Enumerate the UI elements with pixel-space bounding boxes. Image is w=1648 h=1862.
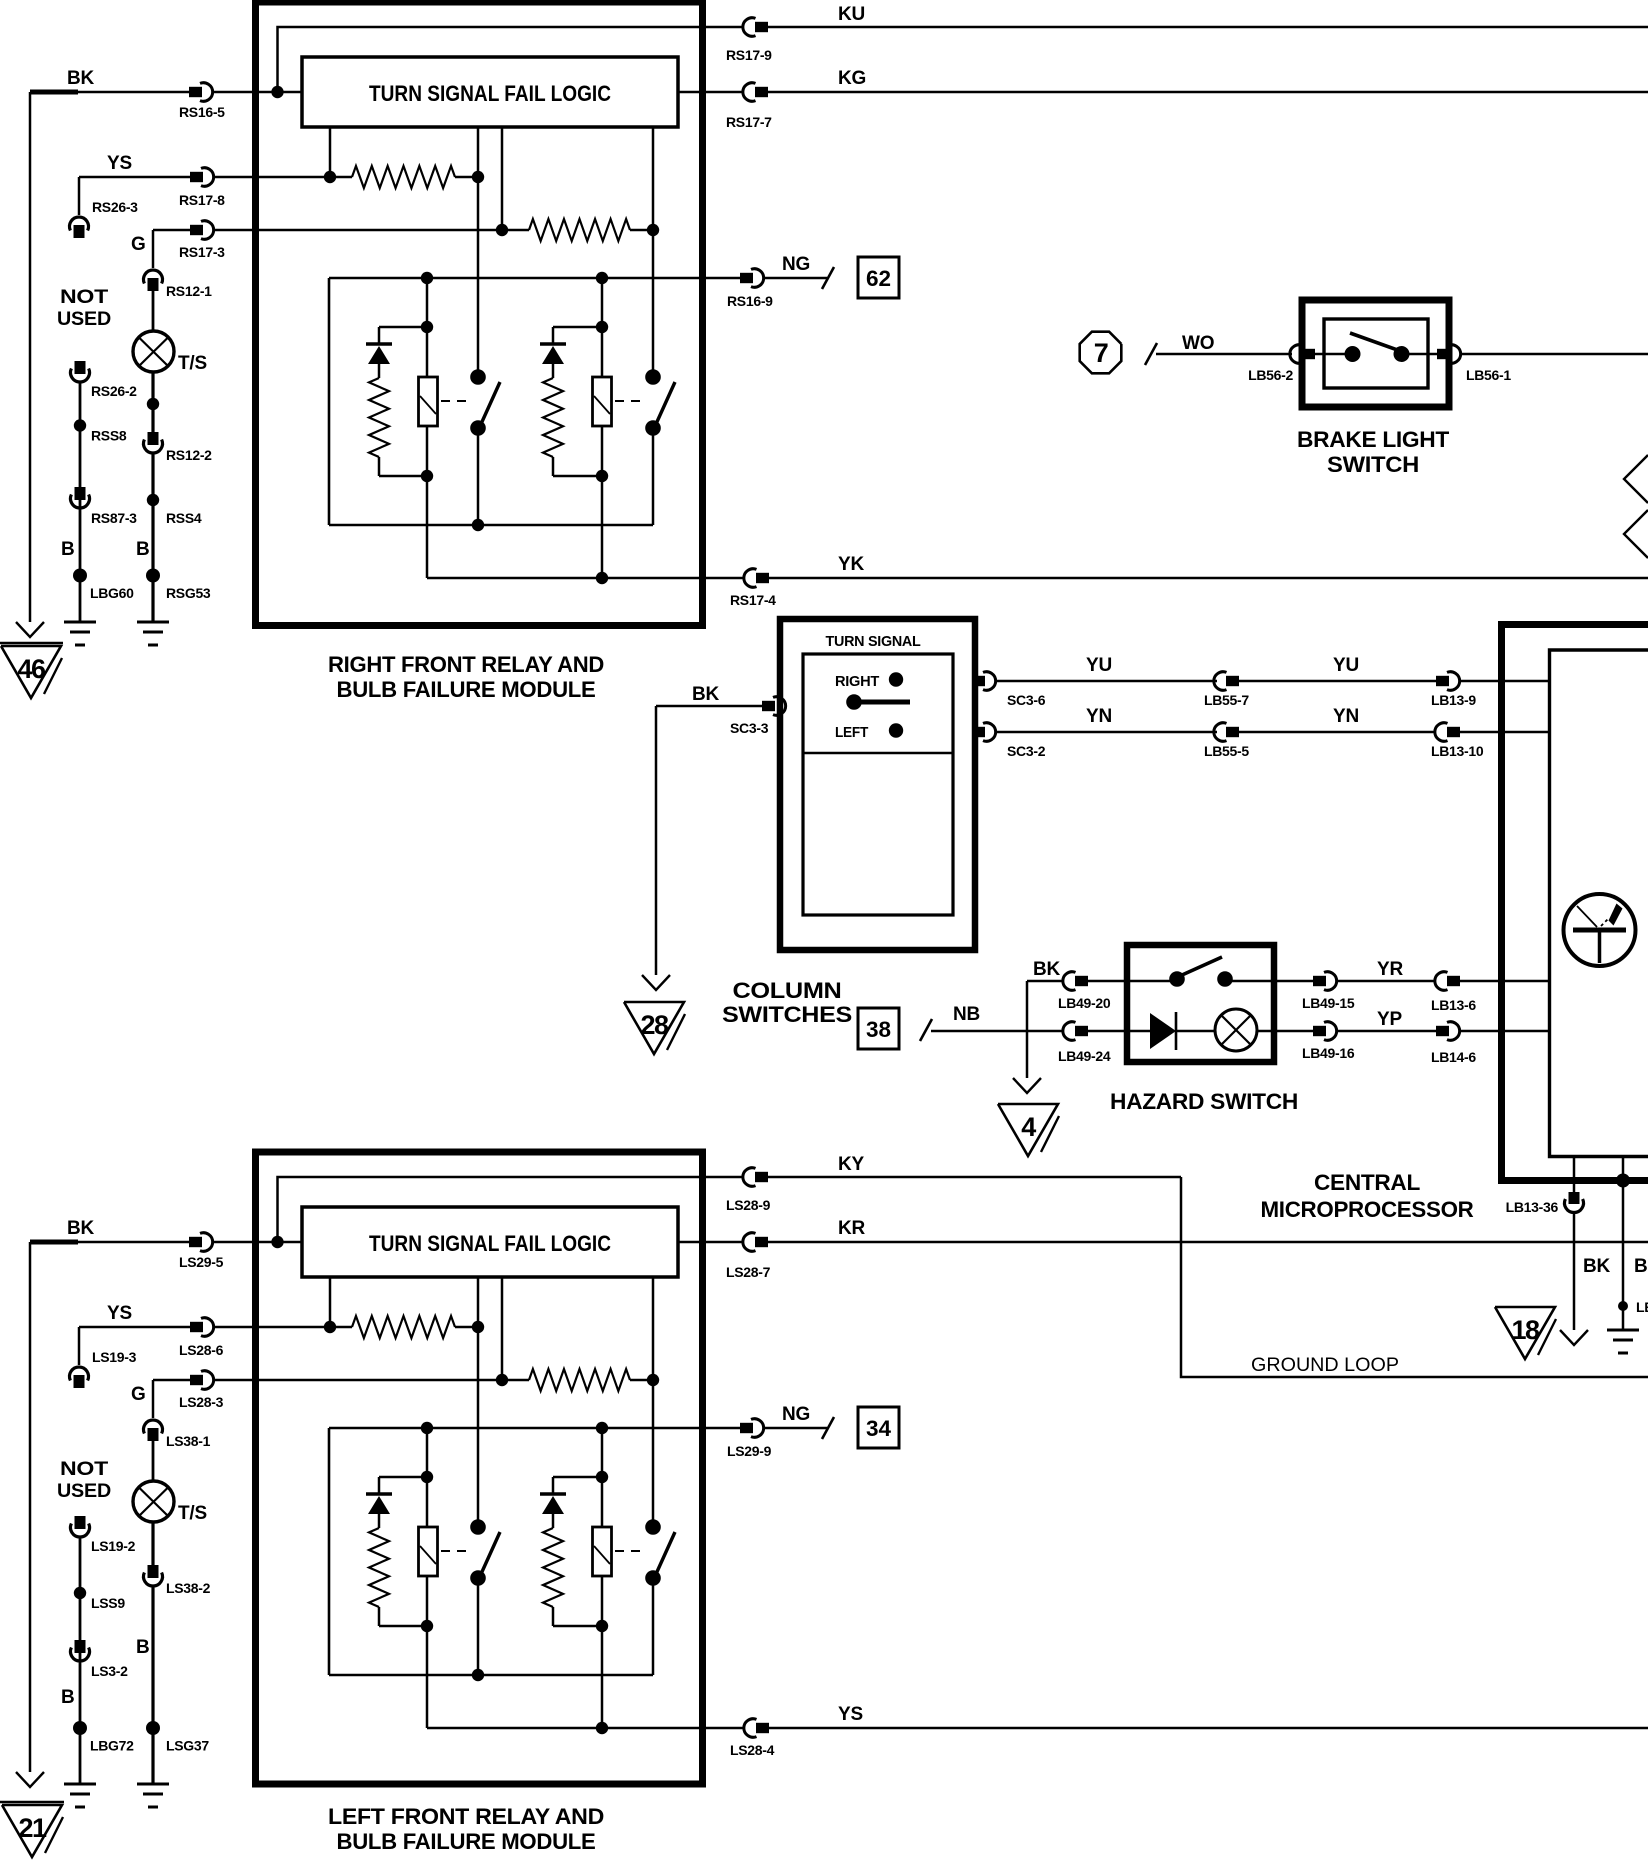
relay compartment box (328, 278, 331, 525)
wire G into module (214, 1379, 503, 1382)
svg-text:NOT: NOT (60, 1459, 109, 1480)
connector RS12-1 (144, 270, 163, 284)
vertical from logic block through resistor 2 to switch 2 (652, 1277, 655, 1527)
svg-text:RS87-3: RS87-3 (91, 510, 137, 526)
wire into hazard switch (1087, 980, 1172, 983)
wire microprocessor ground lead (1573, 1157, 1576, 1193)
module box: LEFT FRONT RELAY AND BULB FAILURE MODULE (256, 1152, 703, 1784)
svg-text:B: B (61, 539, 75, 560)
wire BK to column switch (656, 705, 762, 708)
connector SC3-3 (762, 701, 775, 711)
wire YU into microprocessor (1460, 680, 1550, 683)
svg-text:LS28-6: LS28-6 (179, 1342, 224, 1358)
connector LB49-15 (1313, 976, 1326, 986)
svg-text:LB13-36: LB13-36 (1506, 1199, 1559, 1215)
svg-text:LS19-2: LS19-2 (91, 1538, 136, 1554)
svg-text:7: 7 (1094, 338, 1108, 368)
wire loop to LS28-9 (278, 1177, 706, 1242)
svg-text:LB13-9: LB13-9 (1431, 692, 1476, 708)
relay contact switch 2 (645, 1519, 661, 1535)
svg-text:LB49-24: LB49-24 (1058, 1048, 1111, 1064)
svg-text:HAZARD SWITCH: HAZARD SWITCH (1110, 1089, 1298, 1114)
connector LB49-16 (1313, 1026, 1326, 1036)
ground ref triangle 46 (0, 642, 63, 644)
svg-text:LB49-20: LB49-20 (1058, 995, 1111, 1011)
connector LS28-9 (743, 1168, 756, 1187)
svg-text:YU: YU (1086, 655, 1112, 676)
svg-text:LSS9: LSS9 (91, 1595, 125, 1611)
svg-text:18: 18 (1511, 1315, 1540, 1345)
wire KY output (705, 1176, 744, 1179)
wire diode/resistor top link 2 (553, 326, 602, 329)
connector RS17-8 (190, 172, 203, 182)
svg-text:G: G (131, 1384, 146, 1405)
diode (relay 1 suppression) (366, 1492, 392, 1495)
junction node on YK rail (596, 572, 608, 584)
hazard switch contacts and lever (1169, 971, 1185, 987)
vertical from logic block to resistor 2 (501, 1277, 504, 1380)
wire BK feed (30, 91, 190, 94)
resistor (relay 2 coil shunt) (543, 378, 563, 457)
clipped label fragment (613, 0, 627, 4)
wire diode/resistor top link 2 (553, 1476, 602, 1479)
connector LS29-5 (189, 1237, 202, 1247)
svg-text:YS: YS (107, 1303, 132, 1324)
ground arrow microprocessor (1560, 1330, 1588, 1345)
wire lamp to LB49-16 (1257, 1030, 1313, 1033)
wire KG from logic block (678, 91, 744, 94)
svg-text:NOT: NOT (60, 287, 109, 308)
connector RS17-9 (743, 18, 756, 36)
svg-text:B: B (136, 1637, 150, 1658)
wire diode/resistor top link 1 (379, 326, 427, 329)
vertical from logic block through resistor 1 to switch 1 (477, 127, 480, 377)
lamp T/S (turn signal bulb) (133, 331, 174, 372)
junction node resistor 1 left (324, 171, 336, 183)
diode (hazard illumination) (1150, 1013, 1176, 1049)
diode (relay 2 suppression) (540, 1492, 566, 1495)
wire YK to page edge (768, 577, 1648, 580)
svg-text:BK: BK (1583, 1256, 1611, 1277)
connector LB13-10 (1435, 723, 1448, 741)
svg-text:NG: NG (782, 254, 810, 275)
svg-text:KU: KU (838, 4, 865, 25)
connector RS16-5 (189, 87, 202, 97)
svg-text:SC3-3: SC3-3 (730, 720, 769, 736)
relay coil 1 (426, 278, 429, 377)
junction node LBG60 (73, 569, 87, 583)
junction node LBG72 (73, 1721, 87, 1735)
svg-text:LB55-7: LB55-7 (1204, 692, 1249, 708)
connector LS38-1 (144, 1420, 163, 1434)
svg-text:RS17-4: RS17-4 (730, 592, 776, 608)
svg-text:SWITCHES: SWITCHES (722, 1002, 852, 1027)
wire YS (79, 176, 190, 179)
svg-text:RIGHT: RIGHT (835, 673, 879, 690)
hazard switch box (1127, 945, 1274, 1062)
ground (not-used chain) (64, 621, 96, 624)
lamp (hazard switch illumination) (1215, 1009, 1257, 1051)
vertical from logic block to resistor 2 (501, 127, 504, 230)
svg-text:LB: LB (1636, 1299, 1648, 1315)
connector SC3-6 (972, 676, 985, 686)
wire diode to lamp (1176, 1030, 1215, 1033)
wire YP (1337, 1030, 1437, 1033)
connector SC3-2 (972, 727, 985, 737)
connector LS19-2 (not used chain top) (75, 1516, 86, 1529)
svg-text:NB: NB (953, 1004, 980, 1025)
central microprocessor outer box (1502, 625, 1648, 1181)
svg-text:MICROPROCESSOR: MICROPROCESSOR (1261, 1197, 1474, 1222)
connector LB13-6 (1435, 972, 1448, 990)
svg-text:G: G (131, 234, 146, 255)
svg-text:CENTRAL: CENTRAL (1314, 1170, 1420, 1195)
junction node LSG37 (146, 1721, 160, 1735)
wire diode/resistor bottom link 1 (379, 475, 427, 478)
code box 34 (858, 1407, 899, 1448)
junction node splice (1618, 1301, 1628, 1311)
ground arrow hazard BK (1013, 1078, 1041, 1093)
wire diode/resistor bottom link 2 (553, 475, 602, 478)
dashed actuator link 1 (441, 400, 470, 402)
dashed actuator link 2 (615, 1550, 644, 1552)
lamp T/S (turn signal bulb) (133, 1481, 174, 1522)
svg-text:38: 38 (866, 1017, 891, 1042)
svg-text:LB56-1: LB56-1 (1466, 367, 1511, 383)
junction node on BK wire (271, 1236, 283, 1248)
connector LS28-7 (743, 1233, 756, 1252)
wire YN segment 2 (1238, 731, 1436, 734)
connector LS38-2 (148, 1565, 159, 1578)
connector LS28-4 (744, 1719, 757, 1737)
wire NG to code slash (764, 277, 828, 280)
svg-text:B: B (136, 539, 150, 560)
junction node below lamp (147, 398, 159, 410)
wire G (153, 229, 190, 232)
wire diode/resistor bottom link 2 (553, 1625, 602, 1628)
vertical from logic block through resistor 2 to switch 2 (652, 127, 655, 377)
svg-text:TURN SIGNAL FAIL LOGIC: TURN SIGNAL FAIL LOGIC (369, 1231, 611, 1256)
svg-text:LS28-4: LS28-4 (730, 1742, 775, 1758)
connector LB56-2 (1290, 345, 1303, 364)
wire BK microprocessor ground (1573, 1214, 1576, 1330)
wire YR into microprocessor (1460, 980, 1550, 983)
svg-text:RS16-9: RS16-9 (727, 293, 773, 309)
diode (relay 1 suppression) (366, 342, 392, 345)
wire YP into microprocessor (1460, 1030, 1550, 1033)
svg-text:BK: BK (67, 1218, 95, 1239)
connector RS87-3 (75, 487, 86, 500)
transistor (microprocessor driver) (1564, 894, 1636, 966)
svg-text:LS28-3: LS28-3 (179, 1394, 224, 1410)
svg-text:LB55-5: LB55-5 (1204, 743, 1249, 759)
svg-text:LS38-2: LS38-2 (166, 1580, 211, 1596)
junction node resistor 1 right (472, 171, 484, 183)
svg-text:LB49-15: LB49-15 (1302, 995, 1355, 1011)
svg-text:LSG37: LSG37 (166, 1738, 209, 1754)
svg-text:LS28-7: LS28-7 (726, 1264, 771, 1280)
label WO with code slash (1145, 343, 1157, 365)
svg-text:B: B (61, 1687, 75, 1708)
svg-text:RS17-9: RS17-9 (726, 47, 772, 63)
svg-text:RS16-5: RS16-5 (179, 104, 225, 120)
junction node resistor 2 left (496, 1374, 508, 1386)
svg-text:BK: BK (1634, 1256, 1648, 1277)
connector LB55-7 (1214, 672, 1227, 691)
page-continuation chevron 2 (1624, 510, 1648, 558)
vertical from logic block to resistor 1 (329, 1277, 332, 1327)
ground (lamp return) (137, 1783, 169, 1786)
svg-text:COLUMN: COLUMN (733, 978, 842, 1003)
turn signal switch lever (846, 694, 862, 710)
wire not-used chain (79, 382, 82, 622)
svg-text:YN: YN (1333, 706, 1359, 727)
connector LB56-1 (1437, 349, 1450, 359)
connector RS26-3 (not used) (69, 217, 88, 231)
svg-text:RS17-3: RS17-3 (179, 244, 225, 260)
brake light switch box (1302, 300, 1449, 407)
ground (lamp return) (137, 621, 169, 624)
svg-text:NG: NG (782, 1404, 810, 1425)
wire YR (1337, 980, 1437, 983)
junction node on YS rail (596, 1722, 608, 1734)
svg-text:62: 62 (866, 266, 891, 291)
wire out of brake switch (1409, 353, 1437, 356)
svg-text:4: 4 (1021, 1112, 1036, 1142)
wire NG to code slash (764, 1427, 828, 1430)
svg-text:34: 34 (866, 1416, 892, 1441)
wire YU segment 1 (996, 680, 1218, 683)
wire KG to page edge (767, 91, 1648, 94)
junction node resistor 2 right (647, 224, 659, 236)
svg-text:LS19-3: LS19-3 (92, 1349, 137, 1365)
svg-text:LB13-10: LB13-10 (1431, 743, 1484, 759)
svg-text:SWITCH: SWITCH (1327, 452, 1419, 477)
resistor (bulb-failure sense 1) (352, 166, 455, 188)
junction node resistor 2 left (496, 224, 508, 236)
wire NB into hazard switch (1087, 1030, 1150, 1033)
wire BK second ground (1622, 1181, 1625, 1331)
svg-text:RS12-2: RS12-2 (166, 447, 212, 463)
junction node coil 2 top (596, 1422, 608, 1434)
dashed actuator link 1 (441, 1550, 470, 1552)
wire diode/resistor bottom link 1 (379, 1625, 427, 1628)
svg-text:RSS8: RSS8 (91, 428, 127, 444)
wire YS collector rail (427, 1727, 745, 1730)
svg-text:LS28-9: LS28-9 (726, 1197, 771, 1213)
wire lamp return B (151, 453, 154, 622)
wire KU output (705, 26, 744, 29)
resistor (bulb-failure sense 2) (529, 219, 630, 241)
svg-text:TURN SIGNAL FAIL LOGIC: TURN SIGNAL FAIL LOGIC (369, 81, 611, 106)
svg-text:LB14-6: LB14-6 (1431, 1049, 1476, 1065)
wire lamp return B (151, 1586, 154, 1784)
wire BK feed (30, 1241, 190, 1244)
junction node RSG53 (146, 569, 160, 583)
ground ref triangle 4 (998, 1104, 1058, 1156)
svg-text:RS12-1: RS12-1 (166, 283, 212, 299)
junction node on box edge (1616, 1174, 1630, 1188)
relay contact switch 2 (645, 369, 661, 385)
wire YK collector rail (427, 577, 745, 580)
page-continuation chevron 1 (1624, 455, 1648, 503)
wire YS to page edge (768, 1727, 1648, 1730)
svg-text:USED: USED (57, 309, 111, 330)
svg-text:RS17-7: RS17-7 (726, 114, 772, 130)
wire YS into module (214, 1326, 331, 1329)
wire BK into module (213, 91, 303, 94)
svg-text:T/S: T/S (178, 1503, 207, 1524)
svg-text:LBG72: LBG72 (90, 1738, 134, 1754)
wire YS (79, 1326, 190, 1329)
connector LS28-6 (190, 1322, 203, 1332)
wire YS into module (214, 176, 331, 179)
wire loop to RS17-9 (278, 27, 706, 92)
junction node resistor 1 right (472, 1321, 484, 1333)
column switches box (780, 619, 975, 950)
svg-text:GROUND LOOP: GROUND LOOP (1251, 1355, 1399, 1376)
relay coil 2 (601, 1428, 604, 1527)
svg-text:YP: YP (1377, 1009, 1402, 1030)
relay contact switch 1 (470, 1519, 486, 1535)
svg-text:BK: BK (692, 684, 720, 705)
wire YN into microprocessor (1460, 731, 1550, 734)
resistor (relay 1 coil shunt) (369, 1528, 389, 1607)
svg-text:SC3-2: SC3-2 (1007, 743, 1046, 759)
relay compartment box (328, 1428, 331, 1675)
wire second ground lead (1622, 1157, 1625, 1181)
vertical from logic block to resistor 1 (329, 127, 332, 177)
module box: RIGHT FRONT RELAY AND BULB FAILURE MODULE (256, 2, 703, 626)
wire brake output to page edge (1461, 353, 1648, 356)
resistor (relay 2 coil shunt) (543, 1528, 563, 1607)
svg-text:BULB FAILURE MODULE: BULB FAILURE MODULE (337, 677, 596, 702)
svg-text:28: 28 (640, 1010, 669, 1040)
svg-text:YS: YS (107, 153, 132, 174)
wire hazard switch out (1232, 980, 1313, 983)
junction node resistor 1 left (324, 1321, 336, 1333)
svg-text:KY: KY (838, 1154, 865, 1175)
svg-text:BRAKE LIGHT: BRAKE LIGHT (1297, 427, 1450, 452)
svg-text:LS3-2: LS3-2 (91, 1663, 128, 1679)
svg-text:RSG53: RSG53 (166, 585, 211, 601)
svg-text:SC3-6: SC3-6 (1007, 692, 1046, 708)
svg-text:WO: WO (1182, 333, 1214, 354)
connector RS17-3 (190, 225, 203, 235)
relay coil 2 (601, 278, 604, 377)
wire diode/resistor top link 1 (379, 1476, 427, 1479)
earth ground (microprocessor) (1607, 1329, 1639, 1332)
wire KR to page edge (767, 1241, 1648, 1244)
connector LB49-24 (1063, 1022, 1076, 1041)
logic block TURN SIGNAL FAIL LOGIC (302, 1207, 678, 1277)
ground arrow BK (16, 622, 44, 637)
svg-text:RSS4: RSS4 (166, 510, 202, 526)
connector LB13-36 (1569, 1192, 1580, 1204)
svg-text:BULB FAILURE MODULE: BULB FAILURE MODULE (337, 1829, 596, 1854)
code octagon 7 (1080, 332, 1122, 374)
connector LS29-9 (740, 1423, 753, 1433)
svg-text:YK: YK (838, 554, 864, 575)
svg-text:YN: YN (1086, 706, 1112, 727)
svg-text:LEFT FRONT RELAY AND: LEFT FRONT RELAY AND (328, 1804, 604, 1829)
wire KU to page edge (767, 26, 1648, 29)
svg-text:T/S: T/S (178, 353, 207, 374)
wire lamp to LS38-2 (151, 1522, 154, 1565)
wire KY to page edge (767, 1176, 1181, 1179)
svg-text:LS29-5: LS29-5 (179, 1254, 224, 1270)
brake switch contacts and lever (1345, 346, 1361, 362)
svg-text:21: 21 (18, 1813, 47, 1843)
wire lamp to RS12-2 (151, 372, 154, 432)
svg-text:YR: YR (1377, 959, 1403, 980)
connector LB14-6 (1436, 1026, 1449, 1036)
svg-text:LBG60: LBG60 (90, 585, 134, 601)
connector LS19-3 (not used) (70, 1367, 89, 1381)
resistor (bulb-failure sense 2) (529, 1369, 630, 1391)
logic block TURN SIGNAL FAIL LOGIC (302, 57, 678, 127)
wire BK hazard feed (1027, 980, 1064, 983)
junction node LSS9 (74, 1587, 86, 1599)
vertical from logic block through resistor 1 to switch 1 (477, 1277, 480, 1527)
junction node coil 2 top (596, 272, 608, 284)
code box 62 (858, 257, 899, 298)
svg-text:RS17-8: RS17-8 (179, 192, 225, 208)
dashed actuator link 2 (615, 400, 644, 402)
relay coil 1 (426, 1428, 429, 1527)
svg-text:46: 46 (17, 654, 46, 684)
wire G (153, 1379, 190, 1382)
diode (relay 2 suppression) (540, 342, 566, 345)
wire to turn-signal lamp (152, 1441, 155, 1481)
connector RS16-9 (740, 273, 753, 283)
junction node resistor 2 right (647, 1374, 659, 1386)
connector RS17-4 (744, 569, 757, 588)
connector LB13-9 (1436, 676, 1449, 686)
svg-text:YU: YU (1333, 655, 1359, 676)
resistor (bulb-failure sense 1) (352, 1316, 455, 1338)
wire not-used chain (79, 1537, 82, 1784)
wire WO (1156, 353, 1292, 356)
svg-text:RIGHT FRONT RELAY AND: RIGHT FRONT RELAY AND (328, 652, 604, 677)
svg-text:LEFT: LEFT (835, 724, 868, 741)
svg-text:LB13-6: LB13-6 (1431, 997, 1476, 1013)
svg-text:KG: KG (838, 68, 866, 89)
junction node coil 1 top (421, 272, 433, 284)
ground ref triangle 28 (624, 1002, 684, 1054)
code box 38 (858, 1008, 899, 1049)
connector LB55-5 (1214, 723, 1227, 741)
wire NG rail / compartment top (329, 277, 740, 280)
connector RS12-2 (148, 432, 159, 445)
ground ref triangle 18 (1495, 1307, 1555, 1359)
svg-text:RS26-3: RS26-3 (92, 199, 138, 215)
connector LB49-20 (1063, 972, 1076, 990)
wire KR from logic block (678, 1241, 744, 1244)
junction node coil 1 top (421, 1422, 433, 1434)
wire into brake switch (1311, 353, 1345, 356)
svg-text:USED: USED (57, 1481, 111, 1502)
svg-text:LB49-16: LB49-16 (1302, 1045, 1355, 1061)
wire ground loop (1181, 1177, 1648, 1377)
svg-text:BK: BK (1033, 959, 1061, 980)
svg-text:RS26-2: RS26-2 (91, 383, 137, 399)
resistor (relay 1 coil shunt) (369, 378, 389, 457)
svg-text:LB56-2: LB56-2 (1248, 367, 1293, 383)
svg-text:TURN SIGNAL: TURN SIGNAL (826, 633, 921, 650)
junction node on BK wire (271, 86, 283, 98)
svg-text:KR: KR (838, 1218, 866, 1239)
